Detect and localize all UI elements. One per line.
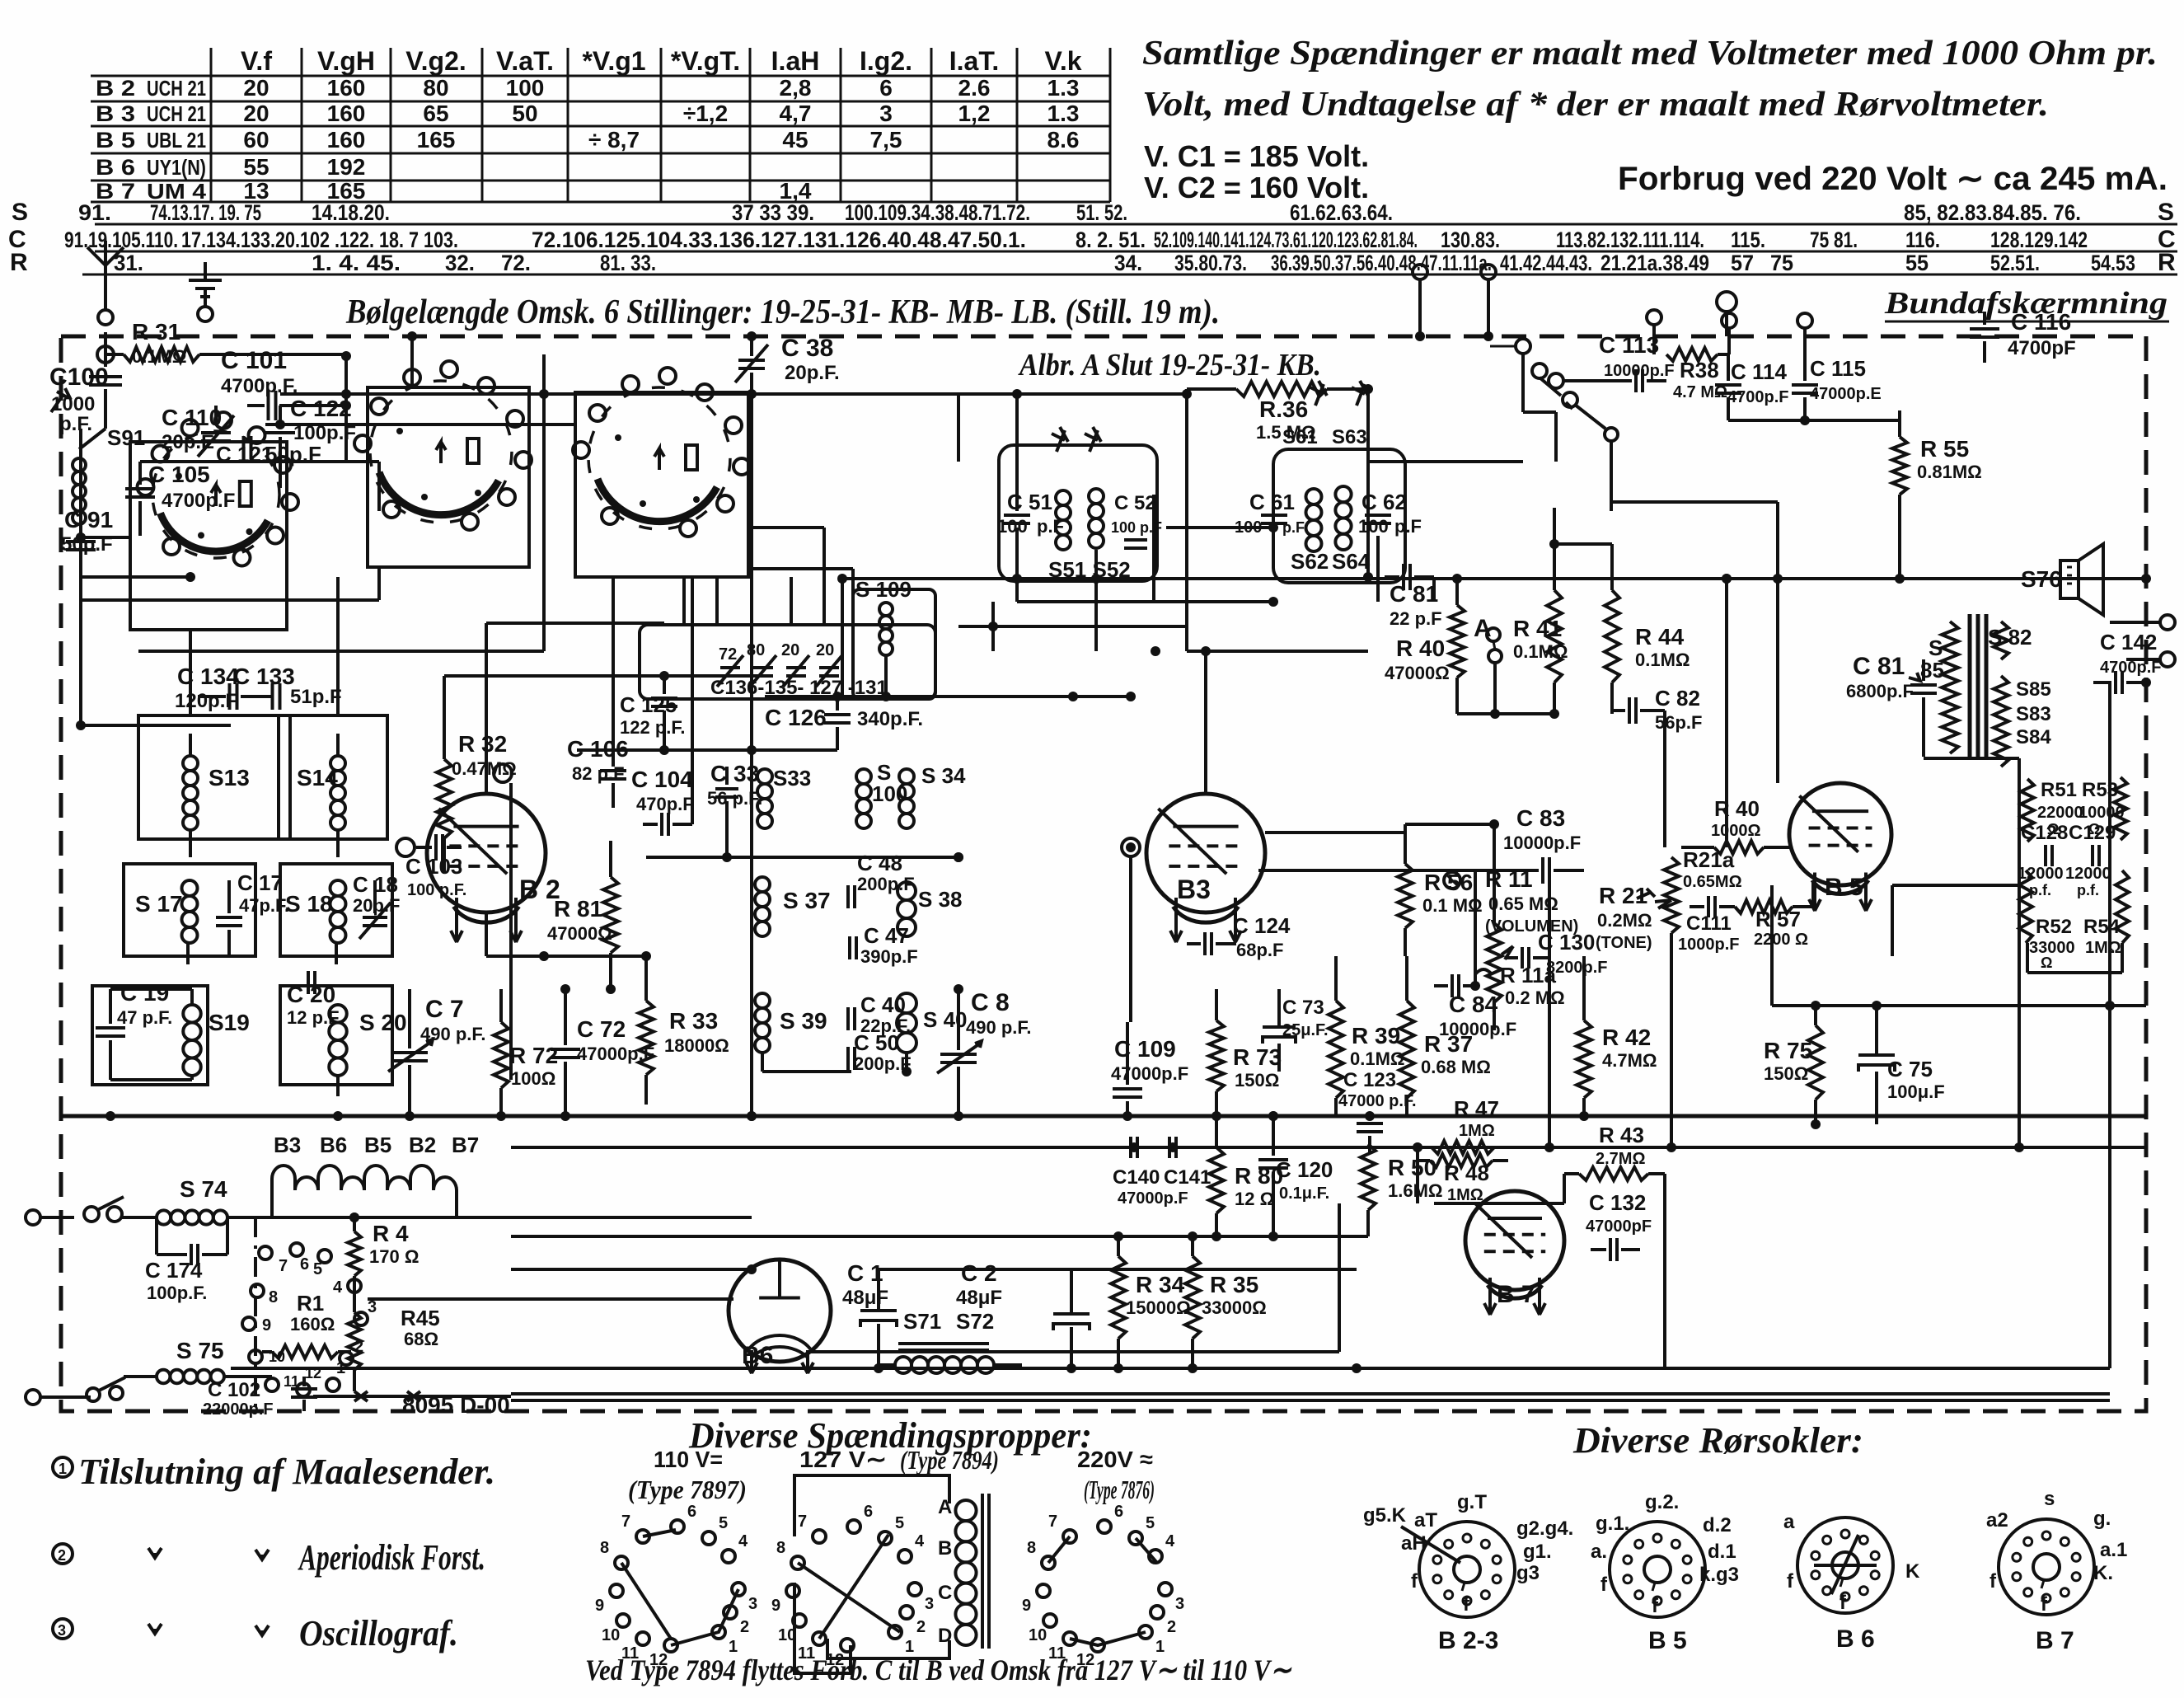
svg-text:S 74: S 74	[180, 1176, 227, 1202]
svg-text:150Ω: 150Ω	[1764, 1063, 1808, 1084]
tube B3	[1122, 794, 1265, 942]
svg-text:9: 9	[595, 1597, 604, 1615]
svg-text:8: 8	[1027, 1539, 1036, 1557]
svg-text:160: 160	[327, 127, 366, 152]
svg-text:160Ω: 160Ω	[290, 1314, 335, 1334]
label 220V	[1077, 1447, 1155, 1504]
tube B2	[427, 794, 560, 942]
wire top area	[280, 462, 379, 511]
resistor R41	[1513, 544, 1568, 714]
terminal mains L2	[26, 1390, 91, 1405]
svg-text:d.2: d.2	[1703, 1514, 1732, 1536]
wire	[81, 783, 511, 1080]
svg-text:0.68 MΩ: 0.68 MΩ	[1421, 1057, 1491, 1077]
svg-text:p.F.: p.F.	[59, 413, 92, 435]
switch mains top	[84, 1197, 124, 1222]
svg-text:*V.gT.: *V.gT.	[671, 46, 740, 76]
svg-text:B 6: B 6	[1836, 1625, 1875, 1653]
svg-text:1MΩ: 1MΩ	[2085, 939, 2121, 957]
svg-text:2,8: 2,8	[780, 75, 812, 101]
svg-text:72.106.125.104.33.136.127.131.: 72.106.125.104.33.136.127.131.126.40.48.…	[532, 227, 1026, 252]
svg-text:C 81: C 81	[1853, 653, 1905, 680]
svg-text:R 31: R 31	[132, 319, 180, 345]
capacitor C120	[1258, 1116, 1333, 1236]
svg-text:R 72: R 72	[509, 1043, 558, 1068]
svg-text:R 50: R 50	[1388, 1155, 1436, 1180]
svg-text:340p.F.: 340p.F.	[857, 708, 923, 730]
svg-text:R 44: R 44	[1635, 624, 1685, 650]
svg-text:7: 7	[621, 1513, 630, 1531]
resistor R37	[1399, 956, 1491, 1116]
svg-text:R 43: R 43	[1599, 1123, 1644, 1147]
wire	[1671, 1147, 2019, 1148]
wire	[80, 537, 82, 725]
svg-text:160: 160	[327, 75, 366, 101]
coil S38	[898, 882, 963, 936]
IF1 box	[999, 445, 1157, 581]
svg-text:C 61: C 61	[1249, 490, 1295, 514]
svg-text:B 7: B 7	[1497, 1281, 1535, 1308]
resistor R47	[1418, 1096, 1508, 1154]
svg-text:s: s	[2044, 1488, 2055, 1510]
svg-text:C 113: C 113	[1599, 332, 1659, 358]
svg-text:S 39: S 39	[780, 1008, 827, 1034]
svg-text:74.13.17. 19. 75: 74.13.17. 19. 75	[150, 200, 261, 225]
svg-text:10000p.F: 10000p.F	[1503, 833, 1581, 853]
label 110V	[628, 1447, 747, 1504]
capacitor C123	[1338, 1069, 1417, 1154]
wire	[752, 1259, 1357, 1269]
capacitor C104	[631, 767, 694, 836]
svg-text:UBL 21: UBL 21	[147, 128, 206, 152]
wire bus top	[280, 389, 1187, 399]
wire	[748, 569, 853, 598]
wire	[842, 574, 2146, 584]
wire	[692, 577, 727, 824]
svg-text:20: 20	[781, 641, 799, 659]
svg-text:37 33 39.: 37 33 39.	[732, 200, 814, 225]
svg-text:1000p.F: 1000p.F	[1678, 936, 1739, 954]
capacitor C109	[1111, 1022, 1188, 1116]
svg-text:0.2 MΩ: 0.2 MΩ	[1505, 987, 1565, 1008]
label 127V	[799, 1445, 999, 1475]
resistor R21a	[1655, 847, 1742, 933]
wire	[765, 655, 958, 701]
svg-text:*V.g1: *V.g1	[582, 46, 645, 76]
title bundafskaermning	[1884, 286, 2169, 321]
capacitor C113	[1549, 332, 1675, 392]
svg-text:75: 75	[1770, 251, 1793, 275]
wire	[1216, 944, 1273, 989]
terminals right	[1647, 310, 1812, 354]
svg-text:122 p.F.: 122 p.F.	[620, 717, 685, 738]
svg-text:f: f	[1990, 1570, 1997, 1592]
svg-text:S71: S71	[903, 1309, 941, 1334]
svg-text:S84: S84	[2016, 726, 2051, 748]
svg-text:R 57: R 57	[1755, 907, 1801, 931]
svg-text:g.T: g.T	[1457, 1491, 1487, 1513]
wire	[1665, 907, 1690, 1147]
svg-text:C 101: C 101	[221, 347, 287, 374]
wire	[511, 1217, 752, 1269]
svg-text:127 V∼: 127 V∼	[799, 1447, 887, 1472]
svg-text:1. 4. 45.: 1. 4. 45.	[312, 251, 401, 275]
capacitor C174	[145, 1217, 227, 1303]
wire	[1063, 550, 1096, 651]
wire	[1816, 885, 1869, 940]
wire	[762, 1053, 958, 1076]
wire	[392, 956, 410, 1032]
coil S100	[856, 760, 907, 828]
svg-text:C 130: C 130	[1538, 930, 1595, 955]
wire	[1892, 885, 2027, 956]
capacitor C40	[848, 992, 911, 1036]
svg-text:51p.F: 51p.F	[290, 686, 342, 708]
svg-text:C 174: C 174	[145, 1258, 203, 1283]
svg-text:390p.F: 390p.F	[860, 946, 918, 967]
terminal speaker out 2	[2126, 652, 2175, 682]
label S51 S52	[1048, 557, 1131, 582]
capacitor C122	[265, 396, 356, 462]
capacitor C20	[287, 971, 340, 1028]
note line 2	[1142, 86, 2049, 124]
capacitor C110	[162, 405, 234, 457]
svg-text:V.gH: V.gH	[317, 46, 375, 76]
svg-text:3: 3	[748, 1595, 757, 1613]
svg-text:45: 45	[782, 127, 808, 152]
heading roersokler	[1572, 1420, 1863, 1461]
svg-text:S85: S85	[2016, 678, 2051, 701]
capacitor C62	[1358, 490, 1422, 537]
svg-text:3: 3	[58, 1622, 66, 1639]
svg-text:C 8: C 8	[971, 989, 1010, 1016]
svg-text:7: 7	[1048, 1513, 1057, 1531]
svg-text:100μ.F: 100μ.F	[1887, 1081, 1945, 1102]
svg-text:V.g2.: V.g2.	[405, 46, 466, 76]
svg-text:72.: 72.	[501, 251, 531, 275]
svg-text:S14: S14	[297, 765, 338, 790]
svg-text:47000Ω: 47000Ω	[547, 923, 612, 944]
svg-text:20: 20	[816, 641, 834, 659]
wire	[1154, 495, 1187, 651]
svg-text:100 p.F: 100 p.F	[1111, 519, 1162, 536]
resistor R43	[1564, 1123, 1665, 1180]
svg-text:2: 2	[740, 1618, 749, 1636]
junction dots bus	[76, 384, 2151, 1222]
svg-text:S13: S13	[209, 765, 250, 790]
wire bus chassis	[61, 1111, 2146, 1129]
svg-text:52.109.140.141.124.73.61.120.1: 52.109.140.141.124.73.61.120.123.62.81.8…	[1154, 227, 1418, 252]
wire	[539, 354, 549, 567]
svg-text:80: 80	[747, 641, 765, 659]
tube B7	[1465, 1191, 1564, 1315]
svg-text:S: S	[12, 199, 28, 226]
resistor R34	[1111, 1236, 1191, 1368]
svg-text:51. 52.: 51. 52.	[1076, 200, 1127, 225]
wire	[993, 650, 1187, 652]
wire	[1549, 956, 1671, 986]
wire	[1206, 651, 1368, 944]
coil S17	[135, 880, 198, 943]
svg-text:f: f	[1652, 1595, 1659, 1617]
capacitor C102	[203, 1377, 317, 1419]
svg-text:R 55: R 55	[1920, 436, 1969, 462]
svg-text:1MΩ: 1MΩ	[1459, 1122, 1495, 1140]
svg-text:S64: S64	[1332, 549, 1371, 574]
capacitor C128	[2018, 822, 2068, 898]
svg-text:75 81.: 75 81.	[1810, 227, 1858, 252]
wire	[1166, 389, 1187, 495]
wire	[1640, 1174, 1665, 1250]
resistor R81	[547, 841, 618, 994]
legend 2	[53, 1537, 485, 1578]
svg-text:81. 33.: 81. 33.	[600, 251, 656, 275]
svg-text:10: 10	[602, 1626, 620, 1644]
resistor R80	[1209, 1116, 1283, 1236]
svg-text:g2.g4.: g2.g4.	[1516, 1517, 1573, 1540]
wire	[1772, 1001, 2146, 1011]
coil S39	[755, 993, 827, 1053]
capacitor C133	[233, 664, 342, 710]
capacitor C7	[388, 989, 485, 1116]
svg-text:B 6: B 6	[96, 155, 135, 180]
wire	[748, 437, 824, 577]
svg-text:R51: R51	[2041, 779, 2077, 801]
wire	[444, 676, 752, 701]
wire	[76, 577, 231, 730]
svg-text:6: 6	[879, 75, 893, 101]
coil S109	[855, 577, 912, 655]
coil S51	[1056, 490, 1071, 550]
svg-text:55: 55	[243, 154, 269, 180]
terminal speaker out 1	[2110, 615, 2175, 630]
svg-text:20p.F.: 20p.F.	[785, 362, 840, 384]
svg-text:8: 8	[269, 1288, 278, 1306]
capacitor C115	[1792, 354, 1882, 420]
resistor R38	[1666, 348, 1728, 401]
svg-text:72: 72	[719, 645, 737, 664]
svg-text:8: 8	[776, 1539, 785, 1557]
svg-text:4: 4	[1165, 1532, 1175, 1550]
svg-text:4: 4	[333, 1278, 343, 1297]
svg-text:6800p.F: 6800p.F	[1846, 681, 1914, 701]
svg-text:B 3: B 3	[96, 101, 135, 126]
svg-text:S 34: S 34	[921, 763, 966, 788]
svg-text:1.3: 1.3	[1047, 75, 1080, 101]
svg-text:d.1: d.1	[1708, 1541, 1736, 1563]
wire	[1728, 410, 1900, 425]
svg-text:R 32: R 32	[458, 731, 507, 757]
wire	[79, 429, 82, 577]
capacitor C82	[1612, 686, 1702, 733]
wire	[272, 1213, 511, 1222]
svg-text:0.47MΩ: 0.47MΩ	[452, 758, 517, 779]
svg-text:Volt, med Undtagelse af * der: Volt, med Undtagelse af * der er maalt m…	[1142, 86, 2049, 124]
capacitor C111	[1678, 896, 1739, 954]
capacitor C47	[850, 923, 918, 967]
bottom note	[585, 1653, 1292, 1686]
capacitor C19	[96, 980, 172, 1080]
svg-text:1: 1	[59, 1461, 67, 1477]
wire	[1022, 1269, 1357, 1365]
svg-text:47000p.F: 47000p.F	[1118, 1189, 1188, 1208]
svg-text:80: 80	[423, 75, 448, 101]
switch mains bottom	[87, 1377, 125, 1401]
svg-text:Tilslutning af Maalesender.: Tilslutning af Maalesender.	[78, 1452, 495, 1492]
svg-text:8.6: 8.6	[1047, 127, 1080, 152]
svg-text:470p.F: 470p.F	[636, 794, 694, 814]
svg-text:25μ.F.: 25μ.F.	[1282, 1021, 1329, 1039]
svg-text:20: 20	[243, 75, 269, 101]
resistor R1	[262, 1291, 351, 1358]
svg-text:1.5 MΩ: 1.5 MΩ	[1256, 422, 1316, 443]
svg-text:160: 160	[327, 101, 366, 126]
svg-text:36.39.50.37.56.40.48.47.11.11a: 36.39.50.37.56.40.48.47.11.11a.	[1271, 251, 1492, 275]
wire	[190, 839, 338, 864]
svg-text:0.1MΩ: 0.1MΩ	[1513, 641, 1568, 662]
resistor R52	[2019, 870, 2075, 971]
svg-text:C 72: C 72	[577, 1016, 626, 1042]
filament chain labels	[274, 1133, 479, 1157]
svg-text:C 7: C 7	[425, 996, 464, 1023]
wire	[808, 1161, 1564, 1352]
wire mid right	[1457, 709, 1612, 719]
filter choke S71 S72	[879, 1309, 1022, 1373]
wire	[613, 808, 658, 961]
svg-text:41.42.44.43.: 41.42.44.43.	[1500, 251, 1592, 275]
svg-text:C 2: C 2	[961, 1260, 997, 1286]
resistor R53	[2079, 777, 2127, 840]
svg-text:52.51.: 52.51.	[1990, 251, 2040, 275]
S109 box	[853, 589, 935, 699]
svg-text:C 52: C 52	[1114, 492, 1156, 514]
capacitor C130	[1505, 930, 1607, 977]
capacitor C100	[49, 332, 122, 435]
wire	[808, 1259, 1357, 1396]
svg-text:100p.F.: 100p.F.	[147, 1283, 207, 1303]
resistor R54	[2083, 870, 2129, 957]
tube socket B2-3	[1363, 1491, 1573, 1654]
note VC1	[1144, 139, 1369, 173]
svg-text:2: 2	[1167, 1618, 1176, 1636]
svg-text:a: a	[1783, 1511, 1795, 1533]
resistor R32	[437, 701, 517, 874]
coil S61S62	[1306, 489, 1322, 551]
text 8095	[313, 1391, 517, 1418]
wire	[110, 989, 192, 1080]
resistor R33	[639, 956, 729, 1105]
svg-text:0.81MΩ: 0.81MΩ	[1917, 462, 1982, 482]
svg-text:4700p.F: 4700p.F	[162, 490, 235, 512]
svg-text:B 7: B 7	[2036, 1627, 2074, 1654]
svg-text:Diverse Rørsokler:: Diverse Rørsokler:	[1572, 1420, 1863, 1461]
wire	[486, 623, 669, 794]
wire	[1405, 819, 1499, 880]
capacitor C114	[1715, 354, 1788, 420]
wire	[1265, 833, 1549, 958]
capacitor C61	[1235, 490, 1305, 537]
svg-text:110 V=: 110 V=	[654, 1447, 723, 1472]
svg-text:C 75: C 75	[1887, 1057, 1933, 1081]
svg-text:0.1μ.F.: 0.1μ.F.	[1279, 1184, 1329, 1203]
svg-text:48μF: 48μF	[956, 1287, 1002, 1309]
svg-text:2: 2	[58, 1547, 66, 1564]
coil S63S64	[1335, 486, 1351, 550]
svg-text:C 81: C 81	[1390, 581, 1438, 607]
wire	[1017, 519, 1278, 607]
trimmer arrows IF1	[1052, 427, 1101, 452]
trimmer bank C136-135-127-131	[710, 641, 888, 699]
svg-text:I.g2.: I.g2.	[860, 46, 912, 76]
capacitor C1	[842, 1260, 897, 1368]
svg-text:R 33: R 33	[669, 1008, 718, 1034]
svg-text:B6: B6	[320, 1133, 347, 1157]
labels S62 S64	[1291, 549, 1371, 574]
wire	[1549, 1161, 1550, 1203]
svg-text:Ω: Ω	[2047, 821, 2059, 837]
svg-text:4: 4	[915, 1532, 925, 1550]
svg-text:C 126: C 126	[765, 705, 827, 730]
svg-text:R54: R54	[2083, 916, 2121, 938]
capacitor C83	[1258, 805, 1584, 884]
resistor R51	[2021, 779, 2083, 842]
coil S14	[297, 734, 345, 857]
wire	[646, 824, 963, 862]
svg-text:200p.F: 200p.F	[857, 874, 915, 894]
dashed enclosure border	[61, 336, 2146, 1411]
svg-text:8. 2. 51.: 8. 2. 51.	[1076, 227, 1146, 252]
svg-text:C 109: C 109	[1114, 1036, 1176, 1062]
svg-text:2200 Ω: 2200 Ω	[1754, 931, 1808, 949]
wire	[765, 828, 907, 882]
coil S75	[124, 1338, 272, 1383]
svg-text:S62: S62	[1291, 549, 1329, 574]
svg-text:B3: B3	[274, 1133, 301, 1157]
resistor R36	[1187, 382, 1368, 443]
svg-text:V. C2 = 160 Volt.: V. C2 = 160 Volt.	[1144, 171, 1369, 204]
svg-text:a2: a2	[1986, 1509, 2008, 1531]
wire	[387, 775, 444, 907]
legend 3	[53, 1613, 458, 1653]
note VC2	[1144, 171, 1369, 204]
svg-text:10000: 10000	[2079, 804, 2125, 822]
svg-text:R 11: R 11	[1485, 866, 1533, 892]
wire	[510, 1116, 512, 1236]
capacitor C73	[1263, 989, 1329, 1072]
svg-text:20: 20	[243, 101, 269, 126]
svg-text:a.: a.	[1591, 1541, 1607, 1563]
resistor R75	[1764, 1006, 1823, 1124]
wire	[188, 956, 336, 986]
svg-text:g.1.: g.1.	[1596, 1513, 1629, 1535]
svg-text:C 142: C 142	[2100, 630, 2157, 654]
svg-text:10: 10	[1029, 1626, 1047, 1644]
capacitor C81b	[1846, 653, 1937, 725]
svg-text:22000: 22000	[2037, 804, 2083, 822]
capacitor C18	[353, 872, 400, 939]
socket 220V	[1022, 1503, 1184, 1669]
svg-text:17.134.133.20.102 .122. 18. 7: 17.134.133.20.102 .122. 18. 7 103.	[181, 227, 458, 252]
svg-text:B3: B3	[1177, 875, 1211, 904]
svg-text:C 133: C 133	[233, 664, 295, 689]
legend 1	[53, 1452, 495, 1492]
capacitor C50	[848, 1030, 912, 1074]
svg-text:C141: C141	[1164, 1166, 1211, 1189]
socket 110V	[595, 1503, 757, 1669]
svg-text:C 116: C 116	[2011, 309, 2071, 335]
capacitor C124	[1187, 913, 1291, 960]
svg-text:100.109.34.38.48.71.72.: 100.109.34.38.48.71.72.	[845, 200, 1030, 225]
